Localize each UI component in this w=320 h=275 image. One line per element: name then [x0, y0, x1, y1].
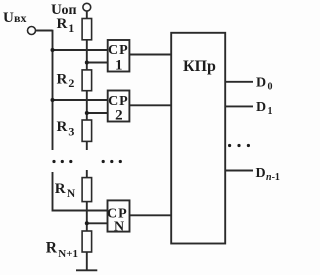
- svg-text:D: D: [256, 75, 266, 90]
- node junction divider node 1: [85, 61, 89, 65]
- wire chain stub below R3: [86, 141, 88, 150]
- resistor RN: [82, 178, 92, 202]
- svg-text:вх: вх: [14, 11, 26, 25]
- encoder KPr box: [171, 33, 225, 244]
- svg-text:3: 3: [68, 124, 74, 138]
- node junction on bus at CP1 branch: [51, 48, 55, 52]
- svg-text:R: R: [55, 181, 66, 197]
- wire branch to CP1 upper input: [53, 49, 108, 51]
- svg-text:0: 0: [268, 82, 273, 93]
- node junction divider node N: [85, 221, 89, 225]
- wire output Dn-1: [225, 170, 253, 172]
- wire R2 to R3: [86, 91, 88, 120]
- svg-text:N: N: [67, 188, 76, 200]
- wire CP1 output: [129, 54, 171, 56]
- wire R1 to R2: [86, 40, 88, 70]
- wire output D0: [225, 81, 253, 83]
- terminal Uvx: [28, 27, 36, 35]
- svg-text:R: R: [46, 239, 58, 256]
- wire terminal Uvx to bus: [36, 30, 53, 32]
- wire node1 branch to CP1 lower input: [87, 62, 108, 64]
- svg-text:n-1: n-1: [266, 172, 280, 183]
- wire chain stub above RN: [86, 170, 88, 178]
- comparator CP2 box: [108, 91, 130, 122]
- wire output D1: [225, 105, 253, 107]
- ellipsis dots comparator column: [102, 160, 105, 163]
- wire node2 branch to CP2 lower input: [87, 112, 108, 114]
- svg-text:2: 2: [115, 108, 123, 124]
- ellipsis dots left column: [52, 160, 55, 163]
- svg-text:D: D: [256, 100, 266, 115]
- ellipsis dots outputs: [228, 144, 231, 147]
- resistor R1: [82, 19, 92, 40]
- wire Uop to R1: [86, 11, 88, 18]
- comparator CPN box: [108, 200, 130, 231]
- svg-text:R: R: [57, 16, 68, 32]
- svg-text:R: R: [57, 119, 68, 135]
- resistor R2: [82, 70, 92, 91]
- wire CPN output: [130, 214, 172, 216]
- wire RN+1 to ground: [86, 252, 88, 270]
- wire nodeN branch to CPN lower input: [87, 222, 108, 224]
- svg-text:R: R: [57, 72, 68, 88]
- wire Uvx bus lower segment to CPN upper input: [53, 172, 108, 211]
- ground: [76, 269, 97, 271]
- wire Uvx bus upper segment: [52, 30, 54, 150]
- resistor RN+1: [82, 231, 92, 252]
- svg-text:2: 2: [68, 76, 74, 90]
- svg-text:N+1: N+1: [58, 248, 78, 260]
- comparator CP1 box: [108, 40, 130, 72]
- resistor R3: [82, 120, 92, 141]
- svg-text:СР: СР: [108, 43, 129, 58]
- svg-text:КПр: КПр: [183, 58, 216, 75]
- terminal Uop: [83, 3, 91, 11]
- wire CP2 output: [129, 104, 171, 106]
- node junction divider node 2: [85, 111, 89, 115]
- wire branch to CP2 upper input: [53, 99, 108, 101]
- svg-text:1: 1: [115, 57, 123, 73]
- svg-text:1: 1: [68, 21, 74, 35]
- node junction on bus at CP2 branch: [51, 98, 55, 102]
- svg-text:D: D: [256, 166, 266, 181]
- svg-text:N: N: [114, 219, 124, 234]
- wire RN to RN+1: [86, 202, 88, 231]
- svg-text:U: U: [3, 10, 14, 26]
- svg-text:1: 1: [268, 106, 273, 117]
